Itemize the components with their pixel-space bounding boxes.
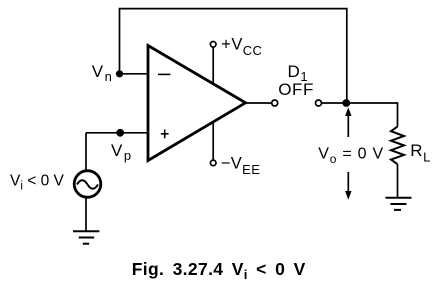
svg-text:OFF: OFF: [278, 80, 314, 99]
svg-text:+VCC: +VCC: [221, 35, 262, 58]
svg-text:Vp: Vp: [111, 141, 133, 163]
svg-text:Vo = 0 V: Vo = 0 V: [318, 145, 384, 166]
svg-text:Fig. 3.27.4 Vi < 0 V: Fig. 3.27.4 Vi < 0 V: [132, 259, 306, 282]
svg-text:Vn: Vn: [92, 62, 114, 84]
svg-text:Vi < 0 V: Vi < 0 V: [10, 172, 64, 192]
svg-text:RL: RL: [410, 141, 431, 165]
svg-text:−VEE: −VEE: [221, 154, 261, 177]
